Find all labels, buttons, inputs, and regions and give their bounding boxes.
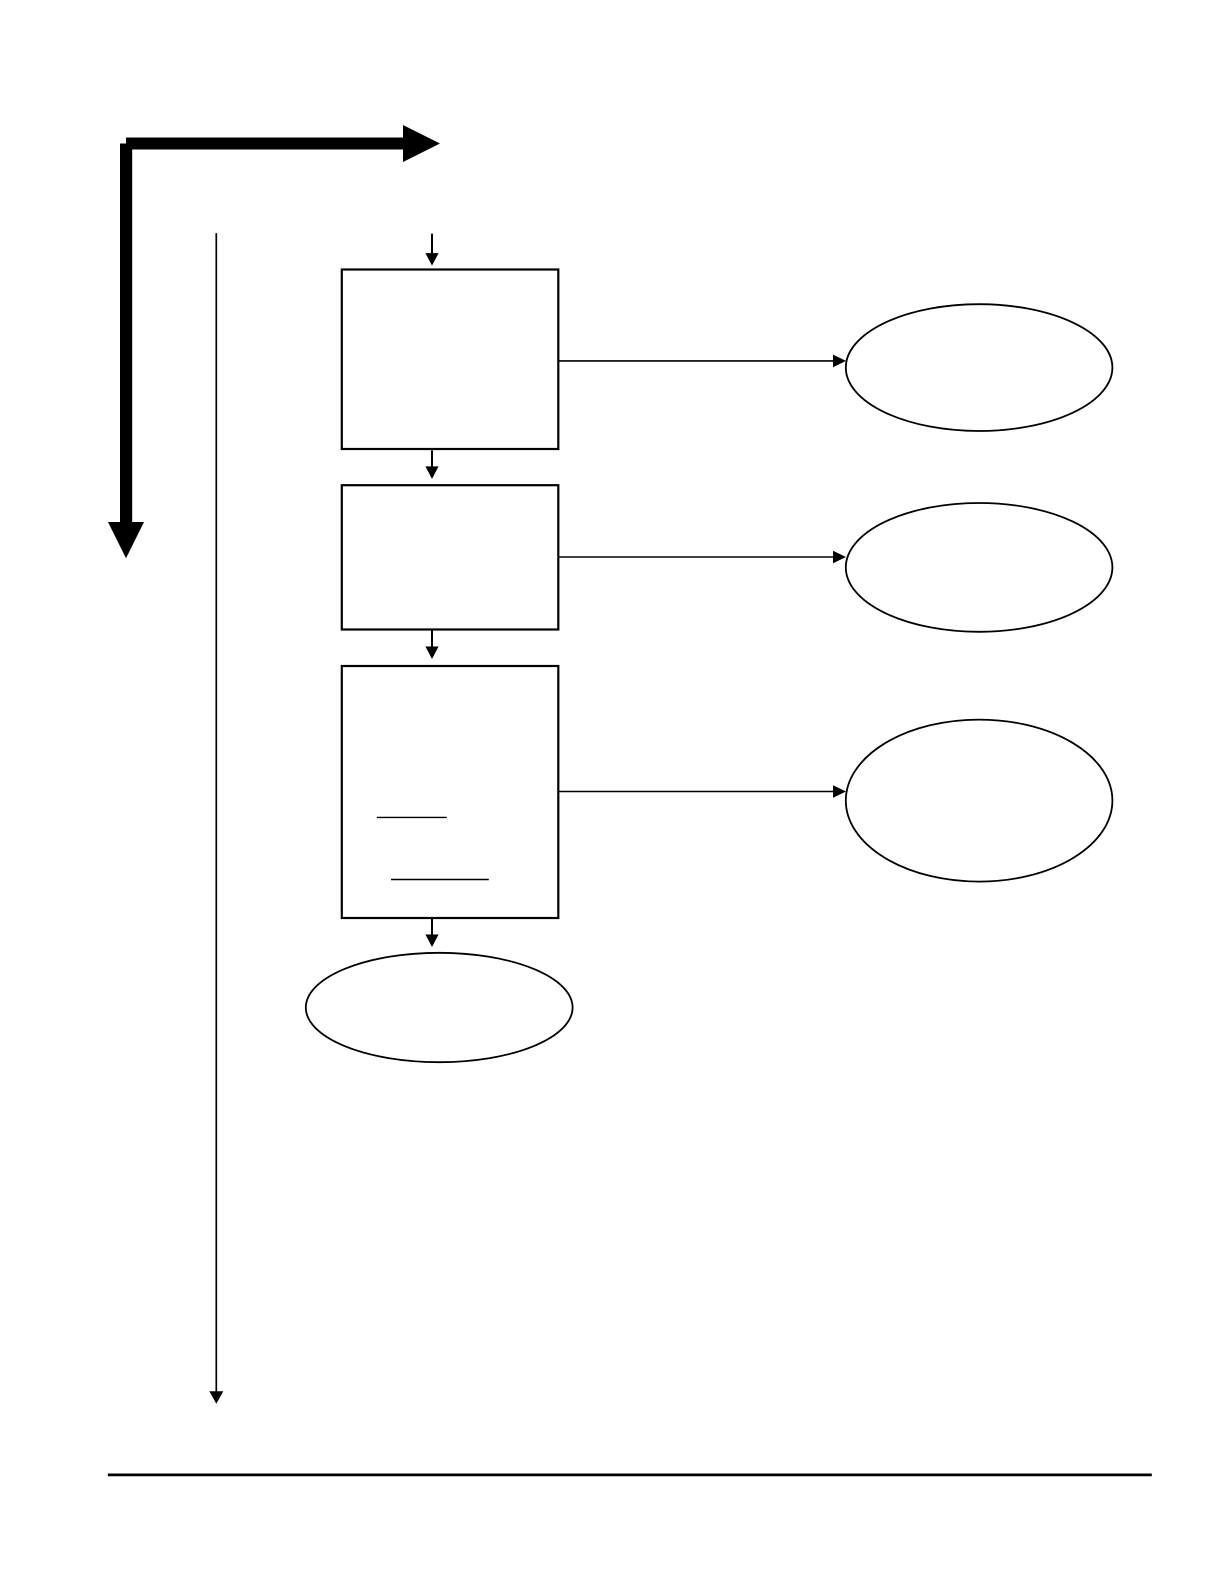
process box 3: [342, 666, 559, 918]
arrow into process box 1: [425, 234, 438, 266]
connector from box 3 to ellipse 3: [559, 785, 847, 798]
blank underline 1 inside box 3: [377, 816, 447, 818]
blank underline 2 inside box 3: [391, 879, 489, 881]
ellipse 1 (top right): [846, 304, 1113, 431]
ellipse 3 (lower right): [846, 720, 1113, 882]
process box 1: [342, 270, 559, 450]
connector from box 2 to ellipse 2: [559, 551, 847, 564]
arrow from box 2 to box 3: [425, 630, 438, 659]
footer horizontal rule: [108, 1474, 1152, 1477]
thick elbow arrow: vertical segment pointing down: [108, 144, 144, 559]
bottom ellipse: [306, 953, 573, 1062]
arrow from box 1 to box 2: [425, 450, 438, 479]
process box 2: [342, 485, 559, 629]
connector from box 1 to ellipse 1: [559, 355, 847, 368]
long thin vertical arrow down left side: [209, 233, 223, 1404]
arrow from box 3 to bottom ellipse: [425, 919, 438, 947]
ellipse 2 (middle right): [846, 503, 1113, 632]
thick elbow arrow: horizontal segment pointing right: [126, 125, 440, 162]
